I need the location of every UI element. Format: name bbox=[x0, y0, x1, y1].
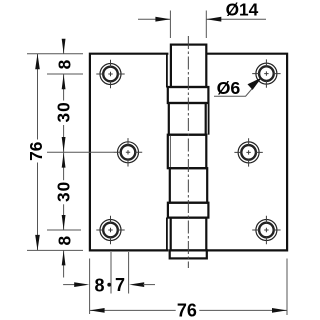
svg-text:Ø6: Ø6 bbox=[217, 78, 241, 98]
8/7 arrow left-pointing bbox=[129, 282, 144, 287]
8/7 shared point dot bbox=[107, 283, 111, 287]
svg-text:8: 8 bbox=[94, 275, 104, 295]
Ø6 leader arrowhead bbox=[248, 78, 262, 90]
arrow down to y=230 bbox=[62, 215, 66, 230]
76 bottom dimension line bbox=[90, 309, 176, 311]
bottom extension line left edge col bbox=[89, 259, 91, 315]
arrow down to y=152 bbox=[62, 137, 66, 152]
right leaf plate bbox=[207, 54, 287, 251]
barrel centerline bbox=[187, 36, 189, 268]
svg-text:Ø14: Ø14 bbox=[226, 0, 259, 19]
Ø14 dimension line left bbox=[138, 18, 170, 20]
Ø14 arrow right-pointing bbox=[155, 17, 170, 22]
extension line top edge (y=54) bbox=[27, 53, 83, 55]
arrow up to y=152 bbox=[62, 153, 66, 168]
svg-text:30: 30 bbox=[53, 181, 73, 202]
76 left dimension line bbox=[37, 54, 39, 140]
barrel knuckle 1 (top) bbox=[171, 45, 206, 87]
8/7 right tail bbox=[143, 284, 155, 286]
chain dimension line x=63.6 bbox=[63, 41, 65, 54]
screw hole bottom-left bbox=[96, 216, 124, 244]
extension line bottom edge (y=250) bbox=[27, 249, 83, 251]
barrel ring 2 bbox=[168, 203, 209, 218]
76 left arrow up bbox=[35, 54, 40, 69]
barrel pin edge inside knuckle 3 bbox=[169, 136, 171, 167]
svg-text:76: 76 bbox=[177, 301, 197, 320]
barrel knuckle 4 bbox=[170, 168, 207, 203]
barrel bottom cap bbox=[170, 250, 207, 258]
svg-text:30: 30 bbox=[53, 101, 73, 122]
76 bottom arrow left-pointing bbox=[90, 308, 105, 313]
screw hole mid-right bbox=[234, 138, 262, 166]
barrel knuckle 2 bbox=[169, 103, 206, 135]
barrel knuckle 3 bbox=[168, 135, 207, 169]
Ø6 leader line bbox=[214, 79, 261, 97]
left leaf edge at barrel (bottom) bbox=[166, 218, 168, 251]
svg-text:8: 8 bbox=[55, 59, 75, 69]
screw hole top-left bbox=[96, 60, 124, 88]
left leaf edge at barrel (top) bbox=[166, 54, 168, 88]
screw hole top-right bbox=[252, 59, 280, 87]
extension line hole row 2 (y=152) bbox=[47, 151, 114, 153]
arrow up to y=74 bbox=[62, 74, 66, 89]
right leaf edge at barrel bbox=[208, 103, 210, 135]
svg-text:8: 8 bbox=[55, 236, 75, 246]
barrel ring 1 bbox=[168, 87, 209, 103]
left leaf plate bbox=[90, 54, 168, 251]
8/7 arrow right-pointing bbox=[74, 282, 89, 287]
8/7 dimension: left tail bbox=[63, 284, 75, 286]
bottom extension line hole col x=111 bbox=[110, 252, 112, 294]
bottom extension line right edge col bbox=[286, 259, 288, 316]
extension line hole row 3 (y=230) bbox=[47, 229, 81, 231]
Ø14 extension lines bbox=[169, 11, 171, 39]
screw hole mid-left bbox=[114, 138, 142, 166]
screw hole bottom-right bbox=[252, 216, 280, 244]
76 bottom arrow right-pointing bbox=[272, 308, 287, 313]
bottom extension line mid hole col x=128.6 bbox=[128, 252, 130, 294]
extension line hole row 1 (y=74) bbox=[47, 73, 83, 75]
76 left arrow down bbox=[35, 235, 40, 251]
svg-text:7: 7 bbox=[115, 275, 125, 295]
arrow down to y=54 bbox=[62, 39, 66, 54]
barrel knuckle 5 bbox=[171, 218, 207, 251]
arrow up to y=250 bbox=[62, 250, 66, 265]
Ø14 dimension line right bbox=[206, 18, 266, 20]
Ø14 arrow left-pointing bbox=[206, 17, 221, 22]
svg-text:76: 76 bbox=[26, 142, 46, 161]
